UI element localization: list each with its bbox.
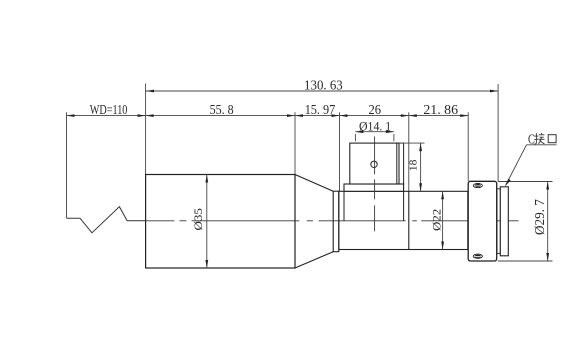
svg-text:18: 18: [409, 160, 420, 172]
svg-text:Ø29. 7: Ø29. 7: [532, 199, 547, 235]
mid barrel (Ø22 section): [339, 191, 468, 249]
svg-text:Ø14. 1: Ø14. 1: [359, 119, 391, 134]
cone end ring: [333, 191, 339, 252]
dimension 21.86: [409, 114, 417, 117]
dimension Ø14.1: [355, 131, 394, 133]
wire break zigzag (object break line, left): [67, 207, 147, 233]
flange screw top: [473, 184, 482, 188]
step ring behind thread plate: [497, 189, 500, 254]
label C接口 leader line: [527, 144, 557, 146]
extension line x=295: [294, 112, 296, 174]
C-mount thread plate: [500, 187, 508, 256]
svg-text:WD=110: WD=110: [90, 102, 128, 117]
svg-text:Ø22: Ø22: [430, 209, 444, 231]
connector box: [350, 143, 399, 184]
C-mount flange: [468, 181, 497, 261]
svg-text:15. 97: 15. 97: [305, 102, 336, 117]
barrel front body (big cylinder): [146, 175, 295, 269]
dimension 130.63 (tier 1): [146, 90, 498, 92]
label 接 glyph (drawn): [534, 133, 544, 144]
extension line x=339.5: [339, 112, 341, 191]
svg-text:55. 8: 55. 8: [210, 102, 234, 117]
extension line + divider x=408.8: [408, 112, 410, 191]
extension Ø29.7 top: [498, 181, 553, 183]
mount plate side edge right (below): [403, 191, 405, 221]
extension line WD left (x=66): [66, 112, 68, 218]
dimension Ø22: [442, 191, 444, 249]
dimension WD=110: [67, 114, 75, 117]
svg-text:C: C: [528, 133, 535, 148]
mount plate side edge left (below): [343, 191, 345, 221]
dimension 15.97: [295, 114, 303, 117]
cone taper bottom edge: [295, 252, 333, 268]
label 口 glyph (drawn): [548, 135, 556, 143]
dimension Ø35 (vertical inside barrel): [206, 175, 208, 269]
extension Ø29.7 bottom: [498, 260, 553, 262]
svg-text:130. 63: 130. 63: [304, 79, 343, 94]
box vertical centerline (dash-dot): [374, 136, 376, 232]
mount plate under box: [344, 184, 404, 191]
svg-text:21. 86: 21. 86: [423, 102, 458, 117]
cone taper top edge: [295, 175, 333, 192]
flange screw bottom: [473, 254, 482, 258]
centerline horizontal (optical axis, dash-dot segments): [146, 220, 519, 222]
dimension 18: [399, 142, 425, 144]
box screw circle: [371, 161, 377, 167]
connector box inner edge: [396, 143, 398, 184]
extension line x=468.2: [467, 112, 469, 181]
dimension 55.8: [146, 114, 154, 117]
extension line x=497.7 (right end of 130.63): [497, 84, 499, 181]
svg-text:Ø35: Ø35: [191, 208, 205, 230]
extension line x=146 (left end of 130.63 / 55.8): [145, 84, 147, 175]
dimension chain line (tier 2): [67, 115, 469, 117]
dimension Ø29.7: [547, 182, 549, 262]
dimension 26: [340, 114, 348, 117]
connector box side tab: [399, 143, 404, 184]
svg-text:26: 26: [369, 102, 382, 117]
